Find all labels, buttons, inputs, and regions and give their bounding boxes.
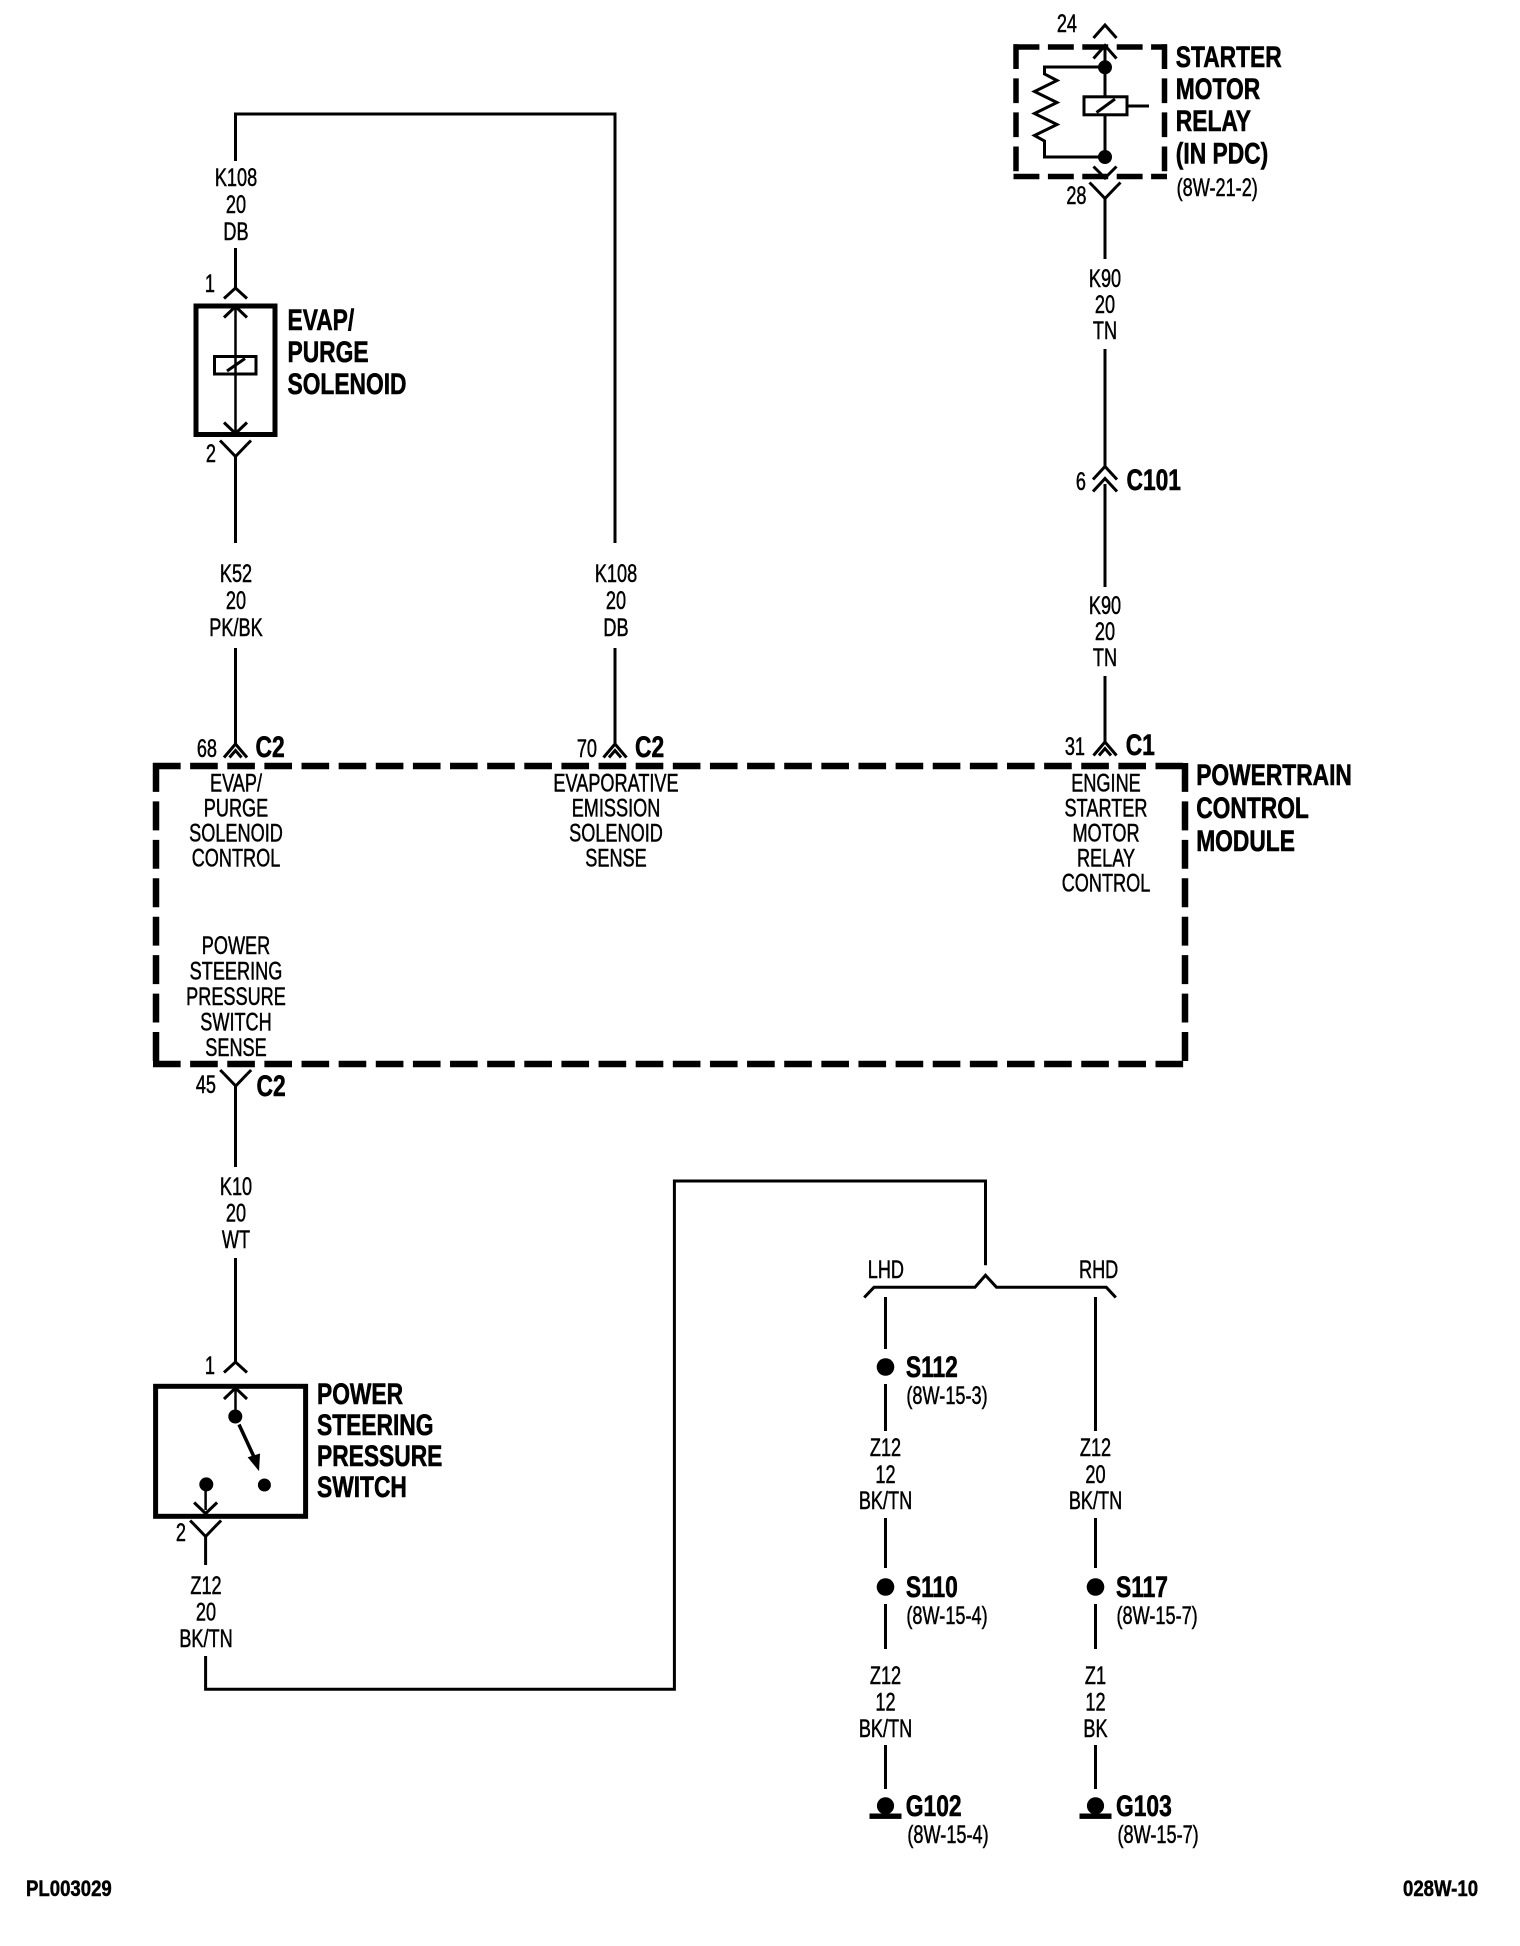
svg-text:CONTROL: CONTROL <box>192 844 281 873</box>
svg-text:20: 20 <box>606 586 626 615</box>
svg-text:STEERING: STEERING <box>190 957 283 986</box>
svg-text:PRESSURE: PRESSURE <box>186 982 286 1011</box>
solenoid coil symbol <box>215 357 257 375</box>
svg-text:PL003029: PL003029 <box>26 1878 112 1902</box>
svg-text:Z12: Z12 <box>870 1661 901 1690</box>
connector pin 70 C2 <box>604 744 627 758</box>
svg-text:SOLENOID: SOLENOID <box>288 367 407 401</box>
svg-text:C101: C101 <box>1127 463 1182 497</box>
svg-text:C1: C1 <box>1126 728 1155 762</box>
svg-text:1: 1 <box>205 269 215 298</box>
svg-text:68: 68 <box>197 734 217 763</box>
switch blade arrowhead <box>249 1454 260 1470</box>
relay coil resistance zigzag branch <box>1035 67 1106 157</box>
starter motor relay dashed box (IN PDC) <box>1014 44 1168 50</box>
svg-text:12: 12 <box>875 1460 895 1489</box>
splice S112 <box>877 1358 895 1376</box>
svg-text:45: 45 <box>196 1070 216 1099</box>
svg-text:(IN PDC): (IN PDC) <box>1176 136 1268 170</box>
svg-text:MODULE: MODULE <box>1196 824 1295 858</box>
svg-text:CONTROL: CONTROL <box>1062 869 1151 898</box>
connector pin 45 C2 <box>224 1074 247 1086</box>
svg-text:S112: S112 <box>906 1350 958 1384</box>
switch contact dot upper <box>228 1410 242 1424</box>
wire Z12 to G102 <box>884 1745 887 1789</box>
ground G102 <box>877 1797 894 1814</box>
svg-text:LHD: LHD <box>868 1255 904 1284</box>
EVAP/PURGE solenoid box <box>196 306 275 435</box>
wire K108 left vertical upper <box>234 113 237 162</box>
svg-text:Z12: Z12 <box>1080 1433 1111 1462</box>
svg-text:SWITCH: SWITCH <box>200 1008 271 1037</box>
svg-text:20: 20 <box>1095 290 1115 319</box>
switch internal arrow bottom <box>194 1503 217 1514</box>
svg-text:G102: G102 <box>906 1789 962 1823</box>
svg-text:Z1: Z1 <box>1085 1661 1106 1690</box>
connector pin 24 (starter motor relay) <box>1094 25 1117 38</box>
svg-text:2: 2 <box>206 439 216 468</box>
wire Z12 below switch <box>204 1537 207 1566</box>
svg-text:K52: K52 <box>220 559 252 588</box>
relay internal arrow bottom <box>1094 167 1117 179</box>
svg-text:(8W-15-3): (8W-15-3) <box>906 1381 987 1410</box>
svg-text:DB: DB <box>223 217 248 246</box>
switch blade diagonal <box>239 1425 255 1459</box>
LHD/RHD split brace <box>864 1275 1116 1297</box>
connector pin 31 C1 <box>1094 742 1117 756</box>
svg-text:(8W-15-4): (8W-15-4) <box>906 1601 987 1630</box>
splice S117 <box>1087 1578 1105 1596</box>
svg-text:K90: K90 <box>1089 264 1121 293</box>
switch contact dot lower left <box>199 1477 213 1491</box>
svg-text:S117: S117 <box>1116 1570 1168 1604</box>
svg-text:PK/BK: PK/BK <box>209 613 263 642</box>
svg-text:20: 20 <box>1095 617 1115 646</box>
wire Z1 to G103 <box>1094 1745 1097 1789</box>
wire Z12 below S110 <box>884 1604 887 1649</box>
svg-text:20: 20 <box>226 190 246 219</box>
svg-text:Z12: Z12 <box>190 1571 221 1600</box>
wire Z12 below S112 <box>884 1384 887 1431</box>
svg-text:WT: WT <box>222 1225 250 1254</box>
svg-text:POWER: POWER <box>317 1377 403 1411</box>
svg-text:POWER: POWER <box>202 931 270 960</box>
relay internal wire top <box>1104 46 1107 63</box>
switch internal wire bottom <box>204 1491 207 1510</box>
wire K108 to solenoid pin 1 <box>234 248 237 288</box>
relay junction dot top <box>1098 60 1112 74</box>
svg-text:RELAY: RELAY <box>1176 104 1251 138</box>
wire K10 lower <box>234 1258 237 1362</box>
svg-text:C2: C2 <box>635 730 664 764</box>
connector pin 2 (switch) <box>194 1525 217 1537</box>
connector pin 68 C2 <box>224 744 247 758</box>
svg-text:20: 20 <box>196 1598 216 1627</box>
svg-text:CONTROL: CONTROL <box>1196 791 1309 825</box>
svg-text:(8W-15-4): (8W-15-4) <box>907 1820 988 1849</box>
svg-text:SENSE: SENSE <box>585 844 646 873</box>
svg-text:BK/TN: BK/TN <box>1069 1486 1122 1515</box>
svg-text:(8W-15-7): (8W-15-7) <box>1118 1820 1199 1849</box>
svg-text:BK/TN: BK/TN <box>859 1486 912 1515</box>
wire K90 below C101 <box>1104 484 1107 587</box>
svg-text:20: 20 <box>1085 1460 1105 1489</box>
svg-text:C2: C2 <box>257 1069 286 1103</box>
wire LHD branch upper <box>884 1297 887 1349</box>
svg-text:2: 2 <box>176 1518 186 1547</box>
solenoid internal arrow bottom <box>224 423 247 434</box>
svg-text:STARTER: STARTER <box>1176 40 1282 74</box>
svg-text:TN: TN <box>1093 316 1117 345</box>
switch internal arrow top <box>224 1388 247 1399</box>
wire K90 to pin 31 <box>1104 676 1107 742</box>
solenoid coil diagonal <box>227 359 245 372</box>
wire Z12 routing loop to LHD/RHD split <box>206 1181 986 1689</box>
svg-text:PRESSURE: PRESSURE <box>317 1439 442 1473</box>
wire K52 upper <box>234 457 237 544</box>
splice S110 <box>877 1578 895 1596</box>
svg-text:SWITCH: SWITCH <box>317 1470 407 1504</box>
wire Z12 to S110 <box>884 1518 887 1568</box>
wire K10 upper <box>234 1086 237 1167</box>
svg-text:(8W-15-7): (8W-15-7) <box>1117 1601 1198 1630</box>
svg-text:28: 28 <box>1066 181 1086 210</box>
connector pin 1 (power steering pressure switch) <box>224 1362 247 1373</box>
relay internal arrow top <box>1094 46 1117 59</box>
svg-text:K90: K90 <box>1089 591 1121 620</box>
svg-text:RHD: RHD <box>1079 1255 1118 1284</box>
svg-text:K108: K108 <box>595 559 637 588</box>
svg-text:Z12: Z12 <box>870 1433 901 1462</box>
svg-text:(8W-21-2): (8W-21-2) <box>1177 173 1258 202</box>
power steering pressure switch box <box>156 1386 306 1516</box>
wire K108 middle vertical <box>614 113 617 544</box>
svg-text:S110: S110 <box>906 1570 958 1604</box>
svg-text:BK/TN: BK/TN <box>859 1714 912 1743</box>
svg-text:G103: G103 <box>1116 1789 1172 1823</box>
svg-text:K108: K108 <box>215 163 257 192</box>
svg-text:K10: K10 <box>220 1172 252 1201</box>
svg-text:12: 12 <box>875 1688 895 1717</box>
svg-text:028W-10: 028W-10 <box>1403 1878 1478 1902</box>
svg-text:MOTOR: MOTOR <box>1176 72 1260 106</box>
svg-text:BK: BK <box>1083 1714 1108 1743</box>
switch contact dot lower right <box>258 1479 271 1492</box>
relay coil diagonal <box>1097 99 1116 113</box>
svg-text:1: 1 <box>205 1351 215 1380</box>
connector pin 1 (EVAP/PURGE solenoid) <box>224 288 247 299</box>
relay wire to coil symbol <box>1104 67 1107 97</box>
svg-text:POWERTRAIN: POWERTRAIN <box>1196 758 1352 792</box>
ground G103 <box>1087 1797 1104 1814</box>
svg-text:SENSE: SENSE <box>205 1033 266 1062</box>
solenoid internal arrow top <box>224 307 247 318</box>
relay wire below coil <box>1104 115 1107 152</box>
wire K90 upper segment <box>1104 199 1107 260</box>
svg-text:TN: TN <box>1093 643 1117 672</box>
wire K108 to pin 70 <box>614 648 617 744</box>
switch internal wire top <box>234 1388 237 1410</box>
connector pin 2 (EVAP/PURGE solenoid) <box>224 445 247 457</box>
relay coil symbol box <box>1084 97 1127 115</box>
wire Z1 below S117 <box>1094 1604 1097 1649</box>
svg-text:EVAP/: EVAP/ <box>288 303 355 337</box>
wire K90 to C101 <box>1104 349 1107 467</box>
svg-text:DB: DB <box>603 613 628 642</box>
wire K52 lower <box>234 648 237 744</box>
relay junction dot bottom <box>1098 150 1112 164</box>
svg-text:20: 20 <box>226 586 246 615</box>
connector pin 28 (starter motor relay) <box>1094 187 1117 199</box>
wire RHD branch upper <box>1094 1297 1097 1431</box>
svg-text:70: 70 <box>577 734 597 763</box>
svg-text:BK/TN: BK/TN <box>179 1624 232 1653</box>
powertrain control module dashed box <box>153 763 1188 770</box>
svg-text:STEERING: STEERING <box>317 1408 433 1442</box>
svg-text:20: 20 <box>226 1199 246 1228</box>
svg-text:12: 12 <box>1085 1688 1105 1717</box>
connector C101 <box>1093 467 1117 480</box>
wire Z12 to S117 <box>1094 1518 1097 1568</box>
svg-text:PURGE: PURGE <box>288 335 369 369</box>
svg-text:31: 31 <box>1065 732 1085 761</box>
relay coil stub to box edge <box>1127 105 1149 108</box>
svg-text:C2: C2 <box>256 730 285 764</box>
svg-text:24: 24 <box>1057 9 1077 38</box>
svg-text:6: 6 <box>1076 467 1086 496</box>
solenoid internal wire <box>234 307 237 435</box>
wire K108 top horizontal <box>236 113 616 116</box>
